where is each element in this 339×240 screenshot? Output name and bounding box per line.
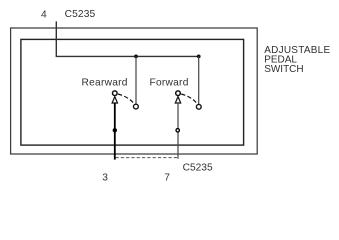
switch S1 Rearward: throw arc (dashed)	[118, 94, 134, 103]
wire bus down to Rearward fixed contact	[135, 56, 137, 104]
switch S2 Forward: fixed contact circle	[196, 104, 201, 109]
junction dot on Rearward wire	[113, 128, 117, 132]
svg-text:C5235: C5235	[65, 9, 96, 20]
wire Rearward blade down to pin 3	[114, 103, 116, 160]
label Forward	[150, 78, 189, 89]
wire Forward blade down to pin 7	[177, 103, 179, 159]
svg-text:Rearward: Rearward	[82, 78, 128, 89]
connector ring on Forward wire	[176, 129, 179, 132]
pin 4 label	[41, 9, 47, 20]
svg-text:C5235: C5235	[183, 162, 213, 173]
connector label C5235 (bottom)	[183, 162, 213, 173]
switch S1 Rearward: upper terminal circle	[113, 91, 118, 96]
svg-text:7: 7	[164, 172, 170, 183]
outer enclosure box	[11, 28, 258, 154]
inner switch box	[21, 39, 244, 145]
switch S1 Rearward: blade arrow head	[112, 97, 117, 103]
pin 3 label	[102, 172, 108, 183]
junction dot A (bus to Rearward contact)	[134, 55, 138, 59]
wire bus down to Forward fixed contact	[198, 56, 200, 104]
switch S2 Forward: throw arc (dashed)	[181, 94, 197, 103]
switch S1 Rearward: fixed contact circle	[134, 104, 139, 109]
svg-text:SWITCH: SWITCH	[264, 64, 303, 75]
switch S2 Forward: upper terminal circle	[176, 91, 181, 96]
svg-text:3: 3	[102, 172, 108, 183]
connector label C5235 (top)	[65, 9, 96, 20]
wire pin4 to top bus	[56, 21, 198, 56]
switch S2 Forward: blade arrow head	[175, 97, 180, 103]
junction dot B (bus to Forward contact)	[197, 55, 201, 59]
dashed harness line pin3 to pin7	[116, 157, 179, 159]
svg-text:Forward: Forward	[150, 78, 189, 89]
svg-text:4: 4	[41, 9, 47, 20]
pin 7 label	[164, 172, 170, 183]
label Rearward	[82, 78, 128, 89]
component name ADJUSTABLE PEDAL SWITCH	[264, 45, 330, 75]
